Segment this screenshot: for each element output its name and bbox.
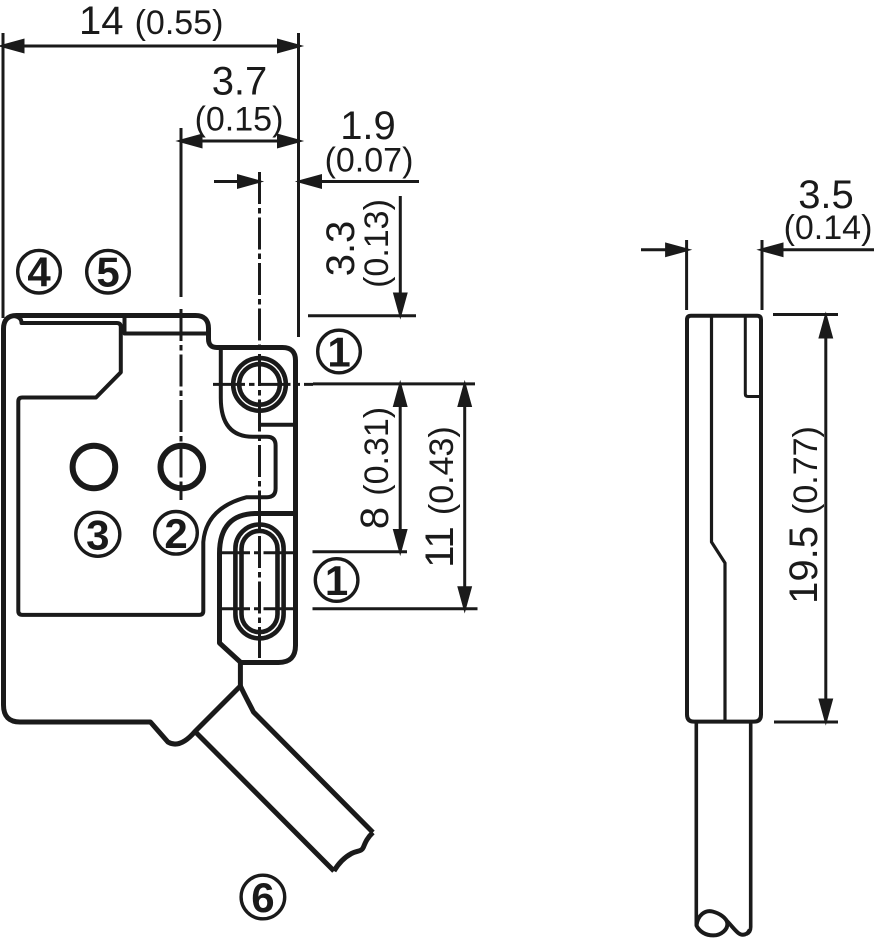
dimension line 1.9 left part [214, 180, 259, 183]
side cable left edge [694, 721, 698, 925]
body outline left and bottom with cable funnel [4, 329, 241, 744]
centerline vertical optic [180, 309, 183, 500]
dimension line 8 [399, 386, 402, 550]
svg-text:4: 4 [27, 249, 51, 296]
dimension line 11 [463, 386, 466, 607]
dimension line 3.5 left tail [641, 248, 687, 251]
svg-text:(0.07): (0.07) [325, 142, 414, 180]
extension line 14 left [2, 33, 5, 318]
extension line 3.3 bottom [308, 314, 416, 317]
centerline horizontal hole [213, 383, 313, 386]
extension line 3.5 right [761, 240, 764, 310]
extension line slot top right [313, 550, 408, 553]
svg-text:1: 1 [327, 329, 350, 376]
slot outer ring [235, 525, 283, 639]
extension line 3.5 left [685, 240, 688, 310]
svg-text:8 (0.31): 8 (0.31) [353, 407, 397, 529]
dimension line 1.9 right part [301, 180, 420, 183]
cable left edge [195, 732, 334, 872]
inner cap seam contour [13, 316, 276, 615]
svg-text:14 (0.55): 14 (0.55) [79, 0, 223, 43]
circled label 3 [76, 511, 120, 558]
dimension line 3.5 right tail [762, 248, 874, 251]
extension line 19.5 top [773, 313, 838, 316]
svg-text:11 (0.43): 11 (0.43) [418, 426, 462, 567]
side body outline [687, 316, 761, 722]
parting line top [125, 316, 209, 334]
optic circle right [161, 446, 204, 489]
svg-text:1: 1 [325, 557, 348, 604]
side cable break loop [697, 911, 728, 935]
svg-text:(0.13): (0.13) [358, 199, 396, 288]
side view [687, 316, 761, 936]
dimension line 3.7 [181, 140, 299, 143]
circled label 4 [18, 249, 61, 296]
dimension line 19.5 [824, 317, 827, 720]
side step line [745, 316, 761, 397]
svg-text:3.7: 3.7 [212, 59, 268, 103]
cable break line [334, 832, 373, 871]
dimension line 14 [5, 45, 298, 48]
seam line below hole boss [259, 423, 296, 427]
side cable break tail [727, 921, 750, 935]
svg-text:6: 6 [251, 874, 274, 921]
centerline slot bottom arc [218, 607, 298, 610]
svg-text:(0.14): (0.14) [784, 209, 873, 247]
centerline vertical hole-slot [258, 172, 261, 658]
slot inner ring [242, 531, 278, 632]
cable right edge [240, 686, 373, 832]
svg-text:5: 5 [96, 249, 119, 296]
svg-text:3: 3 [86, 511, 109, 558]
centerline slot top arc [218, 551, 298, 554]
extension line 3.7 left [180, 128, 183, 297]
circled label 1 top [318, 329, 361, 376]
svg-text:3.3: 3.3 [319, 221, 363, 277]
extension line slot bottom right [313, 607, 478, 610]
circled label 1 bottom [315, 557, 358, 604]
side cable right edge [747, 721, 751, 934]
extension line hole center right [313, 382, 475, 385]
side seam line [712, 316, 726, 721]
svg-text:19.5 (0.77): 19.5 (0.77) [782, 426, 826, 604]
circled label 5 [87, 249, 130, 296]
circled label 2 [155, 510, 198, 557]
body outline top and right flange [4, 316, 296, 663]
circled label 6 [241, 874, 285, 921]
svg-text:2: 2 [164, 510, 187, 557]
extension line 19.5 bottom [774, 721, 838, 724]
svg-text:(0.15): (0.15) [195, 101, 284, 139]
dimension line 3.3 [399, 196, 402, 314]
extension line 14 right [297, 33, 300, 337]
optic circle left [73, 446, 116, 489]
mounting hole outer ring [233, 358, 286, 411]
mounting hole inner ring [239, 364, 280, 405]
